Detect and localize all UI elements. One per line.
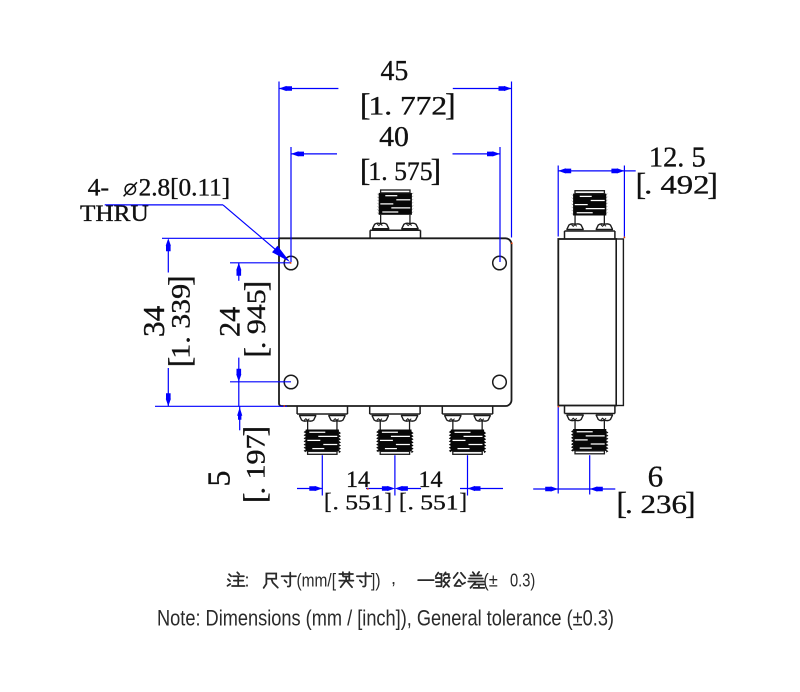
svg-text:45: 45: [381, 55, 409, 87]
svg-text:]: ]: [162, 275, 197, 286]
svg-text:1. 339: 1. 339: [167, 284, 196, 359]
svg-text:,: ,: [391, 568, 396, 588]
svg-text:]: ]: [445, 87, 456, 122]
svg-text:1. 772: 1. 772: [369, 92, 448, 121]
svg-text:]: ]: [238, 281, 273, 292]
svg-text:14: 14: [346, 467, 371, 492]
svg-text:5: 5: [200, 471, 236, 487]
svg-text:. 551: . 551: [408, 491, 459, 515]
svg-text:Note: Dimensions (mm / [inch]): Note: Dimensions (mm / [inch]), General …: [157, 606, 614, 631]
svg-text:12. 5: 12. 5: [649, 142, 706, 174]
svg-text:[: [: [399, 489, 407, 514]
svg-text:]: ]: [707, 166, 718, 201]
svg-text:THRU: THRU: [80, 201, 149, 226]
svg-text:0.3): 0.3): [510, 570, 535, 590]
svg-text:]: ]: [685, 486, 696, 521]
svg-text:]: ]: [384, 489, 392, 514]
svg-text:2.8[0.11]: 2.8[0.11]: [139, 174, 231, 201]
svg-text:(±: (±: [483, 570, 498, 590]
svg-text:]): ]): [371, 570, 381, 590]
svg-text:[: [: [324, 489, 332, 514]
svg-text:]: ]: [237, 426, 272, 437]
svg-text::: :: [245, 570, 250, 590]
svg-text:40: 40: [379, 121, 409, 153]
svg-text:. 492: . 492: [644, 171, 709, 200]
svg-text:. 236: . 236: [625, 490, 687, 519]
svg-text:6: 6: [648, 459, 664, 494]
svg-text:14: 14: [419, 467, 444, 492]
svg-text:1. 575: 1. 575: [368, 157, 432, 186]
svg-text:. 197: . 197: [241, 435, 270, 495]
svg-text:(mm/[: (mm/[: [297, 570, 337, 590]
svg-text:]: ]: [431, 153, 442, 188]
svg-text:]: ]: [459, 489, 467, 514]
svg-text:. 551: . 551: [333, 491, 384, 515]
svg-text:. 945: . 945: [242, 289, 271, 349]
svg-text:4-: 4-: [88, 174, 109, 201]
